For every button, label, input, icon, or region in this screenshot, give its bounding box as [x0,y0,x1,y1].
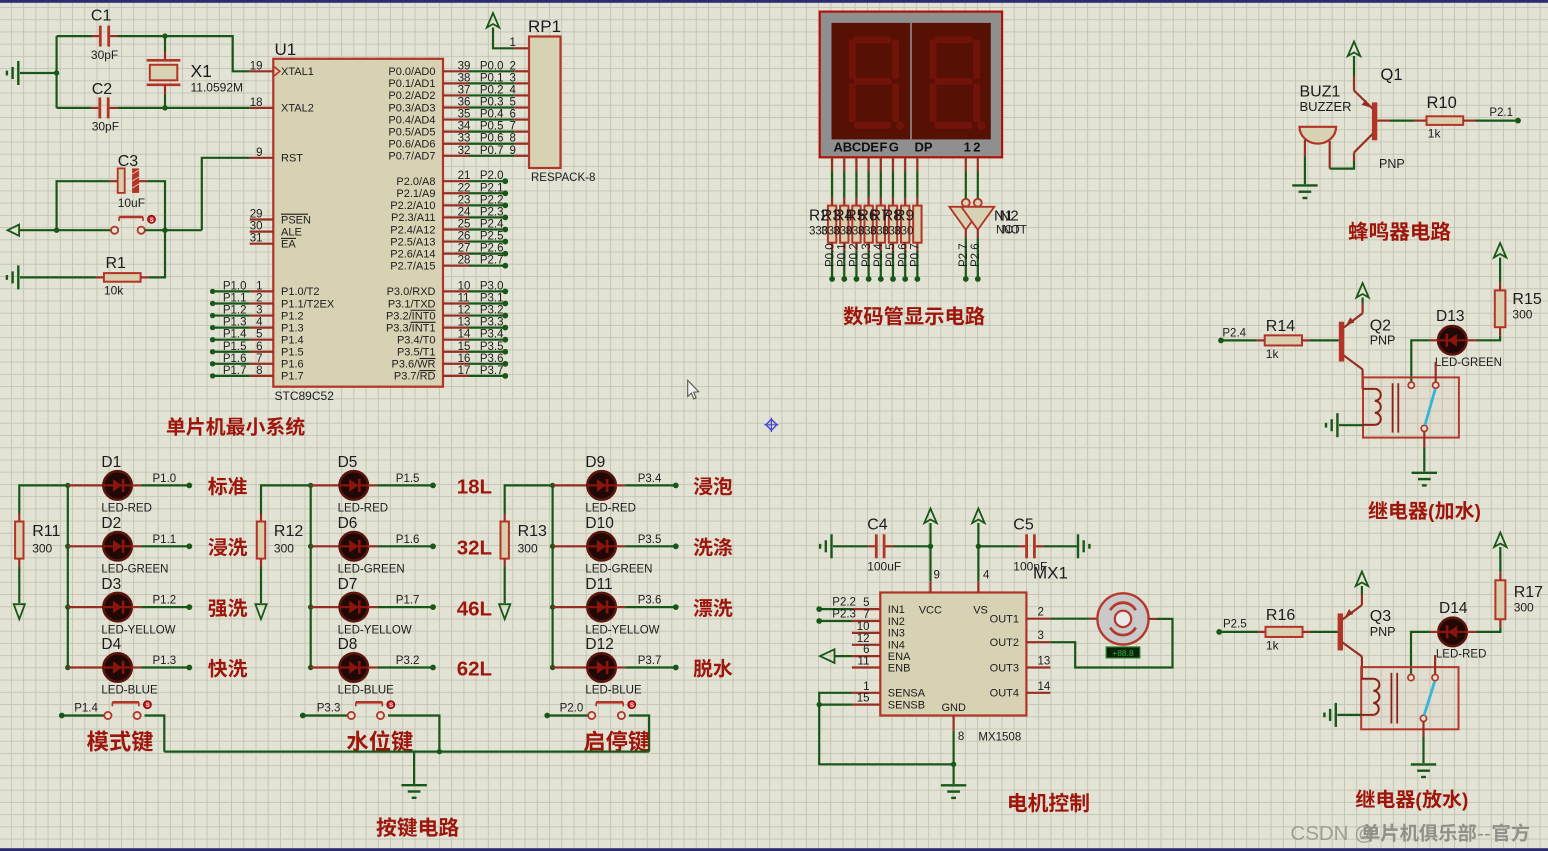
mouse cursor [688,380,699,399]
svg-text:OUT2: OUT2 [990,637,1019,649]
resistor R11 [18,514,20,522]
svg-text:EA: EA [281,239,296,251]
U1 pin 12 P3.2 [443,314,469,316]
resistor pack RP1 body [529,37,561,169]
svg-text:--: -- [1477,822,1491,845]
power terminal (buzzer) [1348,42,1360,57]
svg-text:C1: C1 [91,8,112,25]
label 快洗 [208,659,227,678]
svg-text:LED-BLUE: LED-BLUE [585,685,642,697]
wire net P0.5 to RP1 [469,131,515,133]
resistor R9 [916,198,918,206]
wire segment 0 to R2 [831,172,833,198]
svg-text:Q1: Q1 [1381,66,1403,84]
node P1.4 [59,713,65,719]
buzzer BUZ1 [1300,127,1337,144]
relay RL1 switch lever [1425,389,1435,425]
node P1.2 [186,604,192,610]
U2 pin 4 VS [977,581,979,593]
node key bus [437,749,442,754]
svg-text:26: 26 [458,231,471,243]
svg-text:P0.5: P0.5 [885,243,897,267]
svg-text:30pF: 30pF [91,48,118,62]
relay RL1 (water-in) [1363,377,1459,437]
RP1 pin 3 [514,82,529,84]
wire net P3.2 [469,314,506,316]
svg-text:LED-RED: LED-RED [101,503,151,515]
svg-text:300: 300 [518,542,538,556]
svg-text:P0.6/AD6: P0.6/AD6 [388,139,435,151]
svg-text:28: 28 [458,255,471,267]
svg-text:1k: 1k [1266,639,1280,653]
svg-text:P2.4: P2.4 [1222,328,1246,340]
RP1 pin 6 [514,118,529,120]
U2 pin 2 OUT1 [1026,618,1050,620]
wire R3 to P0.1 [843,251,845,277]
node P1.7 [430,604,436,610]
svg-text:25: 25 [458,218,471,230]
node P1.3 [186,665,192,671]
svg-text:2: 2 [973,139,980,154]
node bus row D9 [550,483,555,488]
transistor Q3 PNP [1338,613,1343,650]
svg-text:D10: D10 [585,515,614,532]
U1 pin 10 P3.0 [443,290,469,292]
label 漂洗 [694,599,713,617]
svg-text:LED-RED: LED-RED [1436,649,1486,661]
svg-text:P2.7/A15: P2.7/A15 [390,260,435,272]
wire button right to RST corner [145,229,202,231]
wire net P3.4 [625,484,676,486]
LED D10 (LED-GREEN) [553,545,588,547]
wire net P0.0 to RP1 [469,70,515,72]
node P2.3 [502,215,508,221]
U2 pin 12 IN4 [852,644,880,646]
resistor R7 [892,198,894,206]
wire RL2 coil to ground-left [1337,714,1361,716]
transistor Q2 PNP [1339,322,1344,362]
svg-text:38: 38 [458,72,471,84]
display segment pin C [855,157,857,171]
top window border strip [0,0,1548,3]
capacitor C1 [92,35,99,37]
ground (RL1) [1412,473,1437,486]
RP1 pin 8 [514,143,529,145]
wire reset row [19,229,110,231]
svg-text:D1: D1 [101,454,121,471]
svg-text:16: 16 [458,353,471,365]
U2 pin 10 IN3 [852,632,880,634]
LED D12 (LED-BLUE) [553,666,588,668]
power terminal (Q2) [1356,283,1368,298]
wire RL1 common to ground [1423,432,1425,448]
svg-text:P1.4: P1.4 [74,703,98,715]
wire segment 5 to R7 [892,172,894,198]
node bus row D3 [65,604,70,609]
wire GND to ground [952,731,954,784]
svg-text:MX1: MX1 [1033,564,1068,583]
svg-text:C2: C2 [92,81,113,98]
node P1.0 [186,483,192,489]
wire C5 to VS node [978,545,1018,547]
power terminal (VCC) [924,509,936,524]
wire buzzer left to ground [1304,157,1306,185]
svg-text:PSEN: PSEN [281,214,311,226]
svg-text:NOT: NOT [1003,225,1027,237]
MX1508 driver body [880,593,1026,716]
LED D11 (LED-YELLOW) [553,606,588,608]
power terminal (Q3) [1356,572,1368,587]
water level push button [348,701,395,719]
wire R7 to P0.5 [892,251,894,277]
svg-text:R12: R12 [274,523,303,540]
ground (RL2 coil) [1324,703,1335,727]
NOT gate N2 [974,199,982,207]
node crystal bottom [162,105,167,110]
U1 pin 36 P0.3 [443,106,469,108]
svg-text:P1.3: P1.3 [281,322,304,334]
svg-text:1: 1 [863,681,869,693]
wire P2.4 to R14 [1221,339,1257,341]
resistor R10 [1414,119,1427,121]
terminal arrow (ENA) [820,649,835,663]
svg-text:P0.7/AD7: P0.7/AD7 [388,151,435,163]
node P3.7 [673,665,679,671]
U2 pin 14 OUT4 [1026,692,1050,694]
svg-text:2: 2 [510,60,516,72]
node bus row D6 [308,544,313,549]
svg-text:P2.0: P2.0 [560,703,584,715]
wire C2 row [57,107,92,109]
wire net P1.1 [141,545,189,547]
wire P2.0 to start button [547,714,588,716]
U1 pin 6 P1.5 [250,351,274,353]
wire power to Q2 [1361,298,1363,304]
svg-text:PNP: PNP [1370,625,1396,639]
wire net P2.6 [469,253,506,255]
wire P1.4 to mode button [62,714,104,716]
ground (keys) [401,785,426,798]
svg-text:P1.6: P1.6 [396,534,420,546]
svg-text:P1.5: P1.5 [281,347,304,359]
svg-text:P3.4/T0: P3.4/T0 [397,334,436,346]
node P0.5 (display) [890,276,896,282]
wire net P3.4 [469,339,506,341]
ground terminal (R12) [255,604,266,619]
svg-text:R9: R9 [894,207,914,224]
svg-text:ALE: ALE [281,226,302,238]
crystal X1 [164,51,166,59]
node reset-left [54,228,59,233]
U2 pin 3 OUT2 [1026,641,1050,643]
LED bus (column 1-4) [67,485,69,667]
svg-text:27: 27 [458,243,471,255]
svg-text:D3: D3 [101,576,121,593]
U1 pin 24 P2.3 [443,216,469,218]
svg-text:P3.7: P3.7 [638,655,662,667]
svg-text:IN4: IN4 [888,640,905,652]
svg-text:S: S [146,703,150,709]
wire net P1.7 [213,375,250,377]
node crystal top [162,33,167,38]
svg-text:7: 7 [510,121,516,133]
svg-text:8: 8 [958,731,964,743]
resistor R5 [868,198,870,206]
svg-text:LED-BLUE: LED-BLUE [101,685,158,697]
svg-text:S: S [630,703,634,709]
wire net P1.5 [213,351,250,353]
resistor R17 [1499,619,1501,627]
svg-text:ENA: ENA [888,651,911,663]
svg-text:P0.2/AD2: P0.2/AD2 [388,90,435,102]
wire R6 to P0.4 [880,251,882,277]
node P1.6 [430,543,436,549]
wire net P3.5 [625,545,676,547]
svg-text:P1.1: P1.1 [153,534,177,546]
node bus row D4 [65,665,70,670]
U2 pin 6 ENA [852,655,880,657]
node P1.3 [210,325,215,330]
node P2.5 [502,239,508,245]
wire segment 7 to R9 [916,172,918,198]
node P2.1 [502,190,508,196]
caption mode key [87,731,108,752]
svg-text:P2.3: P2.3 [832,609,856,621]
node bus row D2 [65,544,70,549]
wire R14 to Q2 base [1310,339,1339,341]
node P0.2 (display) [854,276,860,282]
node P3.5 [502,349,508,355]
svg-text:2: 2 [256,292,262,304]
node P3.4 [502,337,508,343]
svg-text:R1: R1 [106,255,127,272]
resistor R3 [843,198,845,206]
caption start/stop key [584,731,604,752]
wire R10 to P2.1 [1476,119,1516,121]
wire power to VS node [977,523,979,546]
svg-text:P1.5: P1.5 [396,473,420,485]
svg-text:2: 2 [1038,607,1044,619]
caption key circuit [376,817,396,837]
wire C4 to VCC node [894,545,931,547]
7-seg digit 1 [849,37,905,131]
LED D5 (LED-RED) [311,484,340,486]
resistor R16 [1258,631,1266,633]
svg-text:Q3: Q3 [1370,608,1391,625]
svg-text:OUT3: OUT3 [990,662,1019,674]
svg-text:31: 31 [250,233,263,245]
svg-text:): ) [1475,502,1481,523]
svg-text:P0.2: P0.2 [849,243,861,267]
wire R2 to P0.0 [831,251,833,277]
node P2.4 [502,227,508,233]
svg-text:100uF: 100uF [867,560,901,574]
U1 pin 30 ALE [250,231,274,233]
svg-text:19: 19 [250,60,263,72]
U1 pin 21 P2.0 [443,180,469,182]
wire net P2.4 [469,228,506,230]
svg-text:D14: D14 [1439,600,1468,617]
svg-text:9: 9 [934,570,940,582]
node P3.2 [430,665,436,671]
svg-text:4: 4 [510,84,517,96]
svg-text:P0.3: P0.3 [861,243,873,267]
svg-text:10k: 10k [104,284,124,298]
wire net P1.2 [213,314,250,316]
node P3.0 [502,289,508,295]
svg-text:D9: D9 [585,454,605,471]
svg-text:D7: D7 [338,576,358,593]
RP1 pin 5 [514,106,529,108]
capacitor C4 [868,545,875,547]
wire power to VCC node [929,523,931,546]
svg-text:X1: X1 [191,61,212,81]
svg-text:D11: D11 [585,576,612,593]
node reset-right [162,228,167,233]
svg-text:D8: D8 [338,636,358,653]
wire SENSB [819,703,852,705]
svg-text:SENSA: SENSA [888,688,926,700]
svg-text:BUZ1: BUZ1 [1300,84,1341,101]
label 洗涤 [694,538,713,557]
node P3.2 [502,313,508,319]
node VS [976,544,981,549]
U1 pin 38 P0.1 [443,82,469,84]
svg-text:BUZZER: BUZZER [1300,99,1352,114]
wire net P0.1 to RP1 [469,82,515,84]
svg-text:46L: 46L [457,597,492,620]
origin marker [764,418,778,432]
node P3.1 [502,301,508,307]
U2 pin 8 GND [952,716,954,731]
wire P2.5 to R16 [1219,631,1257,633]
wire power to R15 [1499,258,1501,283]
ground terminal (R11) [14,604,25,619]
RP1 pin 9 [514,155,529,157]
svg-text:VCC: VCC [919,605,942,617]
wire C5 to ground-right [1044,545,1077,547]
svg-text:GND: GND [942,702,967,714]
svg-text:OUT1: OUT1 [990,614,1019,626]
svg-text:6: 6 [863,644,869,656]
caption relay drain [1356,789,1375,807]
svg-text:33: 33 [458,133,471,145]
U1 pin 16 P3.6 [443,363,469,365]
node P1.1 [210,301,215,306]
wire net P0.4 to RP1 [469,118,515,120]
svg-text:P2.1: P2.1 [1489,107,1513,119]
LED D13 [1438,326,1466,354]
motor speed readout [1106,647,1140,658]
svg-text:XTAL2: XTAL2 [281,103,314,115]
node P0.4 (display) [878,276,884,282]
svg-text:D2: D2 [101,515,121,532]
svg-text:P1.1/T2EX: P1.1/T2EX [281,298,335,310]
wire SENSA loop [819,693,953,765]
wire net P3.3 [469,327,506,329]
label 强洗 [208,599,227,617]
svg-text:P3.6/WR: P3.6/WR [391,359,435,371]
U1 pin 9 RST [250,157,274,159]
wire D14 right to R17 [1476,627,1501,632]
svg-text:1k: 1k [1428,127,1442,141]
svg-text:P3.3/INT1: P3.3/INT1 [386,322,436,334]
svg-text:7: 7 [256,353,262,365]
svg-text:9: 9 [256,147,262,159]
node GND [951,762,956,767]
node P1.4 [210,337,215,342]
U1 STC89C52 body [273,59,443,387]
svg-text:P1.2: P1.2 [281,310,304,322]
svg-text:E: E [870,139,879,154]
wire net P3.2 [377,666,433,668]
node P3.5 [673,543,679,549]
U1 pin 35 P0.4 [443,118,469,120]
svg-text:P1.2: P1.2 [153,595,177,607]
svg-text:C4: C4 [867,517,888,534]
ground (C5) [1078,534,1089,558]
U1 pin 7 P1.6 [250,363,274,365]
wire net P3.7 [625,666,676,668]
wire power to RP1 pin1 [493,28,514,49]
svg-text:P2.3/A11: P2.3/A11 [391,212,435,224]
wire net P3.6 [625,606,676,608]
wire net P2.2 [469,204,506,206]
svg-text:12: 12 [857,633,870,645]
svg-text:RST: RST [281,153,303,165]
wire R8 to P0.6 [904,251,906,277]
U1 pin 13 P3.3 [443,327,469,329]
node P0.6 (display) [902,276,908,282]
node P1.5 [210,349,215,354]
svg-text:LED-BLUE: LED-BLUE [338,685,395,697]
wire R12 to LED bus [261,485,311,513]
wire net P0.2 to RP1 [469,94,515,96]
svg-text:8: 8 [256,365,262,377]
label 标准 [208,477,227,496]
svg-text:P3.5: P3.5 [638,534,662,546]
svg-text:P0.6: P0.6 [897,243,909,267]
U2 pin 1 SENSA [852,692,880,694]
U1 pin 27 P2.6 [443,253,469,255]
svg-text:P0.7: P0.7 [910,243,922,267]
U1 pin 31 EA [250,243,274,245]
power terminal (R15) [1494,243,1506,258]
U1 pin 37 P0.2 [443,94,469,96]
wire net P3.6 [469,363,506,365]
RP1 pin 2 [514,70,529,72]
svg-text:13: 13 [458,317,471,329]
svg-text:P1.3: P1.3 [153,655,177,667]
svg-text:D5: D5 [338,454,358,471]
svg-text:R16: R16 [1266,607,1295,624]
wire R9 to P0.7 [916,251,918,277]
svg-text:P2.6/A14: P2.6/A14 [390,248,435,260]
U1 pin 1 P1.0 [250,290,274,292]
node P1.6 [210,361,215,366]
wire crystal top [164,36,166,51]
U1 pin 34 P0.5 [443,131,469,133]
svg-text:P0.3/AD3: P0.3/AD3 [388,102,435,114]
U1 pin 23 P2.2 [443,204,469,206]
U1 pin 19 XTAL1 [250,70,274,72]
svg-text:22: 22 [458,182,471,194]
U1 pin 8 P1.7 [250,375,274,377]
svg-text:(: ( [1415,791,1422,812]
svg-text:32: 32 [458,145,471,157]
wire segment 6 to R8 [904,172,906,198]
terminal arrow (reset row left) [8,225,20,236]
